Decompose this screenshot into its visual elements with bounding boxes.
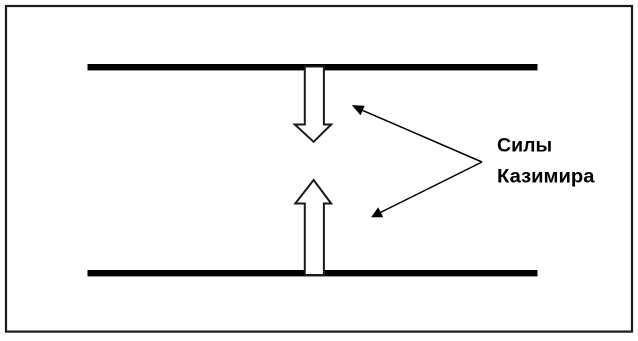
pointer line to lower arrow	[381, 162, 482, 212]
svg-text:Силы: Силы	[497, 135, 552, 157]
svg-text:Казимира: Казимира	[497, 166, 595, 188]
pointer line to upper arrow	[363, 110, 482, 162]
bottom plate	[88, 270, 538, 276]
top plate	[88, 64, 538, 70]
block arrow up (Casimir force on bottom plate)	[295, 180, 331, 275]
arrowhead upper pointer	[352, 105, 365, 115]
block arrow down (Casimir force on top plate)	[295, 67, 331, 142]
arrowhead lower pointer	[371, 207, 383, 217]
